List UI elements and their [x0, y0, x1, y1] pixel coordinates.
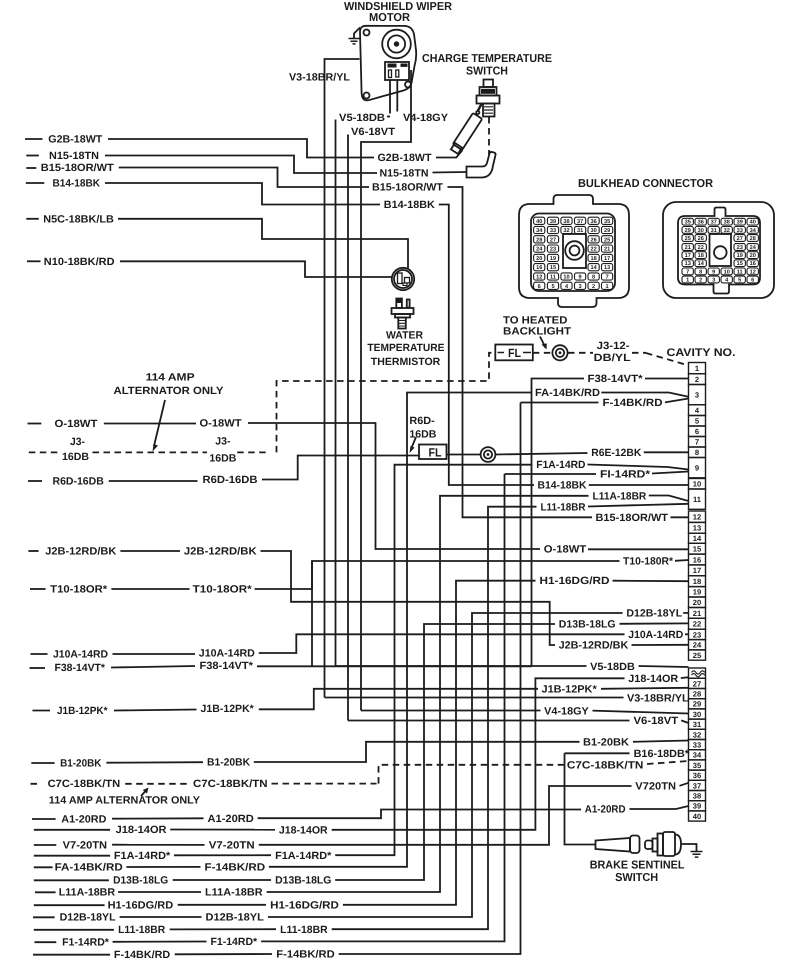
svg-text:11: 11 [737, 269, 743, 275]
svg-text:31: 31 [577, 228, 583, 234]
wire O-18WT riser [248, 423, 540, 549]
svg-text:38: 38 [724, 220, 730, 226]
svg-text:L11-18BR: L11-18BR [118, 924, 166, 936]
wire F38 run [111, 666, 195, 668]
svg-text:J18-14OR: J18-14OR [116, 824, 167, 836]
wire J3 dashed riser to FL [277, 353, 496, 453]
bulkhead J1 cavity cells [534, 217, 613, 290]
svg-text:FI-14RD*: FI-14RD* [600, 469, 651, 481]
wire V5-18DB bus [335, 120, 337, 667]
svg-text:17: 17 [604, 256, 610, 262]
svg-text:2: 2 [695, 375, 699, 384]
svg-text:11: 11 [550, 275, 556, 281]
svg-text:C7C-18BK/TN: C7C-18BK/TN [567, 759, 644, 771]
wire C7C dashed riser [379, 765, 564, 784]
svg-text:D12B-18YL: D12B-18YL [60, 912, 117, 924]
brake sentinel switch plug [645, 841, 653, 850]
wire N15-18TN lead dash [26, 155, 39, 157]
svg-text:BACKLIGHT: BACKLIGHT [503, 326, 572, 338]
wire V4-18GY row to cavity [361, 710, 541, 712]
wire V7 riser [259, 786, 632, 845]
wire R6D-16DB run [109, 480, 198, 482]
svg-text:L11A-18BR: L11A-18BR [59, 887, 116, 899]
svg-text:14: 14 [693, 534, 702, 543]
wire D13B run [173, 879, 271, 881]
svg-text:BRAKE SENTINEL: BRAKE SENTINEL [590, 859, 685, 871]
wire O-18WT to cell 15 [588, 548, 689, 550]
wire FA riser [269, 393, 531, 867]
svg-text:B1-20BK: B1-20BK [60, 757, 102, 769]
svg-text:F-14BK/RD: F-14BK/RD [114, 949, 171, 961]
svg-text:FL: FL [429, 445, 442, 459]
svg-text:FL: FL [508, 346, 521, 360]
svg-text:16: 16 [693, 555, 701, 564]
svg-text:1: 1 [686, 278, 689, 284]
svg-text:F-14BK/RD: F-14BK/RD [276, 949, 335, 961]
svg-text:37: 37 [577, 219, 583, 225]
svg-text:F-14BK/RD: F-14BK/RD [603, 397, 663, 409]
wire V6-18VT bus [347, 135, 349, 721]
wire V5-18DB to cell 26 [639, 666, 689, 667]
wire J1B run [114, 710, 197, 711]
svg-text:13: 13 [685, 261, 691, 267]
svg-text:A1-20RD: A1-20RD [585, 804, 626, 816]
svg-text:17: 17 [685, 253, 691, 259]
svg-text:F38-14VT*: F38-14VT* [588, 373, 644, 385]
svg-text:9: 9 [579, 275, 582, 281]
wire F1-14RD* lead dash [35, 941, 57, 943]
wire B14-18BK to cell 10 [589, 484, 689, 486]
arrow 114 amp bottom to C7C wire [141, 791, 146, 797]
wire F-14BK/RD lead [33, 954, 110, 956]
svg-text:2: 2 [699, 278, 702, 284]
svg-text:L11A-18BR: L11A-18BR [205, 887, 263, 899]
wire F1A riser [335, 465, 532, 856]
svg-text:V7-20TN: V7-20TN [209, 840, 255, 852]
svg-text:13: 13 [693, 524, 701, 533]
svg-text:24: 24 [693, 641, 702, 650]
svg-text:F38-14VT*: F38-14VT* [55, 662, 106, 674]
svg-text:3: 3 [695, 391, 699, 400]
svg-text:3: 3 [579, 284, 582, 290]
svg-text:32: 32 [693, 730, 701, 739]
svg-text:J18-14OR: J18-14OR [628, 673, 678, 685]
svg-text:34: 34 [693, 751, 702, 760]
svg-text:26: 26 [698, 236, 704, 242]
wire B16 to cell 34 [688, 752, 691, 754]
svg-text:38: 38 [563, 219, 569, 225]
cavity number column cells 1-40 [689, 363, 706, 822]
svg-text:V6-18VT: V6-18VT [351, 126, 396, 138]
svg-text:V5-18DB: V5-18DB [339, 112, 385, 124]
wire FL box1 inner dashes [498, 352, 532, 354]
svg-text:15: 15 [550, 265, 556, 271]
svg-text:23: 23 [737, 245, 743, 251]
wire L11 to cell 11 [588, 504, 689, 507]
wire B14-18BK riser to cavity row [439, 205, 534, 486]
wire B1 to cell 33 [633, 741, 689, 742]
wire FA-14BK/RD lead dash [34, 866, 53, 868]
wire B16-18DB* row [565, 752, 630, 754]
svg-text:N10-18BK/RD: N10-18BK/RD [44, 256, 115, 268]
wire C7C to cell 35 [647, 761, 689, 764]
svg-text:J2B-12RD/BK: J2B-12RD/BK [45, 546, 116, 558]
motor armature circle [382, 30, 411, 59]
wire F38 riser right [532, 379, 585, 667]
wire F riser [339, 403, 521, 955]
svg-text:40: 40 [750, 220, 756, 226]
wire dashed J3-12 to cavity 1 [646, 353, 687, 365]
svg-text:R6D-16DB: R6D-16DB [53, 476, 105, 488]
svg-text:J1B-12PK*: J1B-12PK* [201, 703, 255, 715]
wire B16/brake branch [565, 753, 596, 844]
svg-text:CHARGE TEMPERATURE: CHARGE TEMPERATURE [422, 53, 552, 65]
svg-text:33: 33 [550, 228, 556, 234]
svg-text:18: 18 [590, 256, 596, 262]
svg-text:29: 29 [685, 228, 691, 234]
svg-text:25: 25 [604, 237, 610, 243]
svg-text:BULKHEAD CONNECTOR: BULKHEAD CONNECTOR [578, 178, 714, 190]
svg-text:D13B-18LG: D13B-18LG [559, 619, 616, 631]
wire V4 to cell 30 [593, 711, 689, 714]
svg-text:16DB: 16DB [209, 453, 236, 465]
svg-text:J3-: J3- [215, 436, 231, 448]
svg-text:B14-18BK: B14-18BK [538, 480, 587, 492]
svg-text:25: 25 [685, 236, 691, 242]
wire V3-18BR/YL bus [325, 59, 360, 698]
wire D12B-18YL lead dash [33, 916, 55, 918]
svg-text:J3-: J3- [70, 436, 85, 448]
svg-text:O-18WT: O-18WT [544, 544, 587, 556]
wire A1 riser [258, 810, 581, 819]
svg-text:3: 3 [712, 278, 715, 284]
wire J18-14OR lead [34, 829, 110, 831]
wire F run [175, 953, 272, 955]
svg-text:10: 10 [693, 480, 701, 489]
wire V7 run [112, 844, 204, 846]
wire D13B-18LG lead [34, 879, 109, 881]
svg-text:R6D-16DB: R6D-16DB [203, 474, 258, 486]
svg-text:F1A-14RD*: F1A-14RD* [275, 850, 332, 862]
wire A1-20RD lead dash [32, 818, 56, 820]
wire J1B riser [259, 689, 538, 710]
svg-text:22: 22 [590, 247, 596, 253]
wire J18 riser [332, 678, 625, 830]
wire B1 riser [254, 742, 580, 762]
wire J10A to cell 23 [685, 633, 689, 635]
svg-text:B14-18BK: B14-18BK [384, 199, 435, 211]
svg-text:N15-18TN: N15-18TN [380, 168, 429, 180]
svg-text:15: 15 [693, 545, 702, 554]
wire V720TN to cell 37 [680, 783, 689, 786]
wire H1 to cell 18 [613, 580, 689, 583]
wire V3-18BR/YL row to cavity [325, 697, 624, 699]
svg-text:F38-14VT*: F38-14VT* [200, 660, 254, 672]
wire FA to cell 3 [601, 393, 688, 397]
svg-text:28: 28 [750, 236, 756, 242]
svg-text:31: 31 [693, 720, 702, 729]
arrow 114 amp to J3 dashed wire [154, 400, 165, 446]
svg-text:L11A-18BR: L11A-18BR [593, 490, 647, 502]
arrow R6D to FL box [411, 437, 416, 449]
svg-text:7: 7 [695, 438, 699, 447]
svg-text:F1A-14RD: F1A-14RD [536, 459, 586, 471]
svg-text:A1-20RD: A1-20RD [61, 813, 107, 825]
svg-text:18: 18 [698, 253, 704, 259]
svg-text:T10-18OR*: T10-18OR* [193, 584, 253, 596]
wire J2B to cell 24 [632, 644, 689, 646]
wire V6-18VT row to cavity [348, 720, 630, 722]
svg-text:39: 39 [737, 220, 743, 226]
wire H1 run [178, 904, 266, 906]
wire F1A-14RD* lead [34, 855, 110, 857]
wire F1 riser [261, 474, 504, 941]
wire T10 to cell 16 [675, 559, 689, 562]
svg-text:9: 9 [695, 464, 699, 473]
svg-text:H1-16DG/RD: H1-16DG/RD [270, 900, 339, 912]
wire F-14BK/RD to cell 3 [665, 399, 689, 403]
svg-text:SWITCH: SWITCH [615, 872, 658, 884]
svg-text:22: 22 [698, 245, 704, 251]
svg-text:10: 10 [724, 269, 730, 275]
wire N15-18TN run [105, 156, 377, 174]
wire V3 to cell 29 [688, 698, 691, 700]
svg-text:114 AMP: 114 AMP [146, 372, 195, 384]
svg-text:11: 11 [693, 495, 702, 504]
svg-text:7: 7 [686, 269, 689, 275]
charge temperature switch S1 [484, 80, 494, 88]
svg-text:28: 28 [536, 237, 542, 243]
svg-text:CAVITY NO.: CAVITY NO. [667, 347, 736, 359]
bulkhead J2 center block [710, 234, 732, 266]
fusible link FL box 2 [419, 445, 447, 460]
svg-text:10: 10 [563, 275, 569, 281]
svg-text:8: 8 [699, 269, 702, 275]
wire F1 run [113, 941, 207, 943]
wire V4-18GY jog from motor to bus [361, 70, 411, 711]
svg-text:A1-20RD: A1-20RD [208, 813, 255, 825]
wire J1B-12PK* lead dash [33, 710, 51, 712]
svg-text:B1-20BK: B1-20BK [583, 736, 629, 748]
svg-text:6: 6 [751, 278, 754, 284]
wire D12B run [120, 916, 202, 918]
svg-text:17: 17 [693, 566, 701, 575]
wire R6E after FL [447, 454, 481, 456]
wire O-18WT run [104, 423, 196, 425]
wire F1A to cell 9 [588, 465, 689, 470]
svg-text:24: 24 [750, 245, 757, 251]
svg-text:34: 34 [536, 228, 543, 234]
wire B15-18OR/WT lead dash [26, 167, 36, 169]
svg-text:34: 34 [750, 228, 757, 234]
svg-text:8: 8 [695, 448, 699, 457]
wire B15-18OR/WT riser to cavity row [448, 187, 593, 517]
ground symbol at motor [354, 28, 360, 39]
svg-text:O-18WT: O-18WT [55, 418, 99, 430]
wire N15-18TN to elbow [433, 171, 467, 174]
svg-text:14: 14 [698, 261, 705, 267]
wire J10A run [113, 653, 196, 655]
svg-text:F-14BK/RD: F-14BK/RD [205, 862, 266, 874]
motor screw bottom-right [405, 82, 411, 88]
svg-text:V5-18DB: V5-18DB [590, 661, 635, 673]
connector cone (to G2B) [450, 113, 482, 155]
svg-text:J1B-12PK*: J1B-12PK* [57, 705, 108, 717]
svg-text:31: 31 [711, 228, 717, 234]
svg-text:C7C-18BK/TN: C7C-18BK/TN [48, 778, 121, 790]
svg-text:TO HEATED: TO HEATED [503, 315, 568, 327]
svg-text:L11-18BR: L11-18BR [280, 924, 328, 936]
svg-text:114 AMP ALTERNATOR ONLY: 114 AMP ALTERNATOR ONLY [49, 795, 200, 807]
svg-text:18: 18 [693, 577, 701, 586]
svg-text:35: 35 [604, 219, 610, 225]
wire L11 run [170, 928, 276, 930]
svg-text:23: 23 [550, 247, 556, 253]
svg-text:2: 2 [592, 284, 595, 290]
svg-text:8: 8 [592, 275, 595, 281]
wire J18 to cell 27 [681, 676, 689, 679]
svg-text:37: 37 [693, 781, 701, 790]
svg-text:J3-12-: J3-12- [597, 340, 631, 352]
wire F38 to cell 2 [645, 378, 689, 380]
wire F-14BK/RD from riser [521, 402, 599, 404]
svg-text:V6-18VT: V6-18VT [634, 715, 679, 727]
wire N10-18BK/RD lead dash [27, 260, 41, 262]
wire R6E to label [496, 453, 588, 455]
svg-text:J10A-14RD: J10A-14RD [628, 629, 683, 641]
thermistor connector circle [392, 268, 414, 290]
svg-text:30: 30 [590, 228, 596, 234]
svg-text:WATER: WATER [386, 329, 423, 341]
svg-text:B14-18BK: B14-18BK [53, 178, 101, 190]
wire H1 riser [343, 581, 536, 905]
wire B14-18BK lead dash [26, 182, 45, 184]
svg-text:SWITCH: SWITCH [466, 66, 508, 78]
wire motor pin2 to V4 label [396, 80, 398, 112]
svg-text:J2B-12RD/BK: J2B-12RD/BK [184, 546, 257, 558]
svg-text:FA-14BK/RD: FA-14BK/RD [55, 862, 124, 874]
svg-text:27: 27 [737, 236, 743, 242]
svg-text:35: 35 [685, 220, 691, 226]
svg-text:V4-18GY: V4-18GY [403, 112, 448, 124]
wire J2B-12RD/BK lead dash [28, 550, 38, 552]
svg-text:T10-180R*: T10-180R* [623, 556, 674, 568]
svg-text:B15-18OR/WT: B15-18OR/WT [596, 512, 669, 524]
svg-text:T10-18OR*: T10-18OR* [50, 584, 108, 596]
wire B15-18OR/WT to cell 12 [671, 516, 689, 518]
svg-text:29: 29 [604, 228, 610, 234]
svg-text:V3-18BR/YL: V3-18BR/YL [289, 72, 351, 84]
wire A1 run [112, 817, 203, 819]
wire J10A riser [259, 634, 625, 653]
wire J1B to cell 28 [601, 688, 689, 689]
arrow to heated backlight grommet [540, 337, 546, 348]
wire B1 run [106, 761, 203, 764]
wire T10-18OR* lead dash [30, 588, 46, 590]
wire G2B-18WT lead dash [25, 138, 43, 140]
grommet 2 [481, 447, 496, 462]
svg-text:DB/YL: DB/YL [594, 352, 632, 364]
svg-text:19: 19 [737, 253, 743, 259]
svg-text:5: 5 [551, 284, 554, 290]
svg-text:15: 15 [737, 261, 743, 267]
wire B15-18OR/WT run [119, 168, 369, 188]
svg-text:20: 20 [536, 256, 542, 262]
svg-text:6: 6 [538, 284, 541, 290]
svg-text:36: 36 [698, 220, 704, 226]
svg-text:C7C-18BK/TN: C7C-18BK/TN [193, 778, 268, 790]
svg-text:J18-14OR: J18-14OR [279, 825, 328, 837]
svg-text:21: 21 [693, 609, 702, 618]
wire L11 riser [332, 507, 537, 930]
svg-text:12: 12 [750, 269, 756, 275]
wire L11-18BR lead [34, 929, 114, 931]
svg-text:26: 26 [590, 237, 596, 243]
brake switch ground [681, 844, 697, 852]
svg-text:16: 16 [750, 261, 756, 267]
svg-text:D13B-18LG: D13B-18LG [275, 875, 331, 887]
wire N5C-18BK/LB to thermistor connector [118, 219, 408, 268]
svg-text:27: 27 [550, 237, 556, 243]
bulkhead connector right J2 outline [663, 202, 774, 298]
svg-text:L11-18BR: L11-18BR [541, 501, 586, 513]
wire G2B-18WT run [108, 139, 374, 158]
svg-text:F1-14RD*: F1-14RD* [211, 936, 259, 948]
svg-text:20: 20 [750, 253, 756, 259]
svg-text:19: 19 [693, 588, 701, 597]
wire F1A run [174, 854, 271, 856]
wire B14-18BK run [105, 183, 380, 205]
brake sentinel switch cone [596, 838, 631, 852]
wire A1 to cell 39 [630, 806, 689, 809]
grommet 1 [552, 345, 567, 360]
svg-text:32: 32 [563, 228, 569, 234]
svg-text:F1-14RD*: F1-14RD* [62, 937, 110, 949]
wire FI-14RD* from riser [505, 473, 597, 475]
wire J3-16DB dashed row [29, 451, 269, 453]
bulkhead J1 center block [563, 234, 586, 268]
svg-text:30: 30 [693, 710, 701, 719]
wire L11A-18BR lead dash [35, 891, 56, 893]
svg-text:J10A-14RD: J10A-14RD [53, 649, 108, 661]
wire J2B run [120, 550, 180, 552]
svg-text:39: 39 [693, 802, 701, 811]
svg-text:33: 33 [737, 228, 743, 234]
svg-text:36: 36 [590, 219, 596, 225]
wire J18 run [170, 829, 275, 831]
svg-text:MOTOR: MOTOR [369, 12, 411, 24]
svg-text:37: 37 [711, 220, 717, 226]
svg-text:29: 29 [693, 700, 701, 709]
svg-text:40: 40 [536, 219, 542, 225]
water temperature thermistor symbol [396, 299, 402, 309]
svg-text:G2B-18WT: G2B-18WT [378, 152, 433, 164]
svg-text:V4-18GY: V4-18GY [544, 705, 589, 717]
svg-text:39: 39 [550, 219, 556, 225]
connector elbow boot (to N15) [467, 152, 496, 178]
svg-text:21: 21 [685, 245, 691, 251]
svg-text:B16-18DB*: B16-18DB* [634, 748, 690, 760]
wire FI-14RD* to cell 9 [652, 472, 689, 474]
wire N10-18BK/RD to thermistor connector [120, 261, 392, 277]
svg-text:21: 21 [604, 247, 610, 253]
svg-text:TEMPERATURE: TEMPERATURE [367, 342, 444, 354]
wire R6D-16DB to FL box2 [262, 456, 419, 480]
svg-text:40: 40 [693, 812, 701, 821]
svg-text:7: 7 [606, 275, 609, 281]
svg-text:V3-18BR/YL: V3-18BR/YL [627, 693, 689, 705]
svg-text:30: 30 [698, 228, 704, 234]
